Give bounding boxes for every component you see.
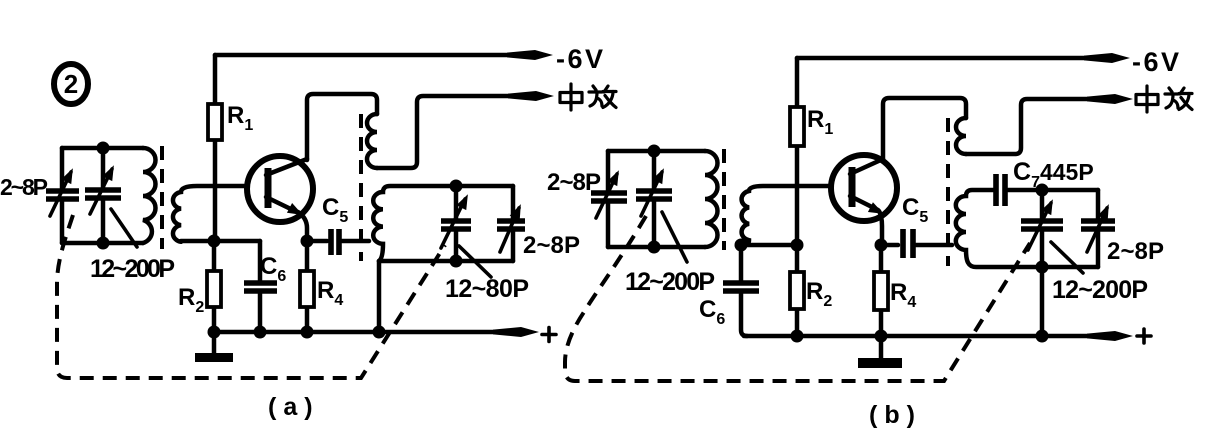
transformer T2a secondary coil and tank top wire <box>373 186 513 261</box>
wire primary bottom to IF output rail (a) <box>377 96 541 168</box>
ground symbol (b) <box>858 336 902 363</box>
node tank top (a) <box>450 180 463 193</box>
variable capacitor 12~80P (a output) <box>441 186 473 261</box>
svg-text:2: 2 <box>64 69 78 99</box>
node bias divider (b) <box>791 239 804 252</box>
resistor R2 (a) <box>178 241 221 332</box>
common plus rail (b) <box>744 329 1151 343</box>
resistor R1 (a) <box>208 55 253 241</box>
ganged tuning dashed link (a) <box>57 215 445 378</box>
leader line to 12~200P label (a) <box>111 209 137 247</box>
capacitor C6 (a) <box>244 241 286 332</box>
node bottom of input tank (a) <box>97 237 110 250</box>
node bottom of input tank (b) <box>648 241 661 254</box>
svg-text:-6V: -6V <box>1132 47 1179 77</box>
IF output arrow (a) <box>508 91 554 101</box>
capacitor C5 (b) <box>881 194 952 258</box>
node rail C6 (a) <box>254 326 267 339</box>
transformer T2b secondary coil and tank bottom wire (b) <box>956 190 1098 267</box>
transformer T1b secondary coil and base wire <box>742 186 831 245</box>
leader line to 12~80P label (a) <box>459 246 491 277</box>
transformer T2b primary coil <box>956 118 966 154</box>
variable capacitor 2~8P (a output) <box>497 186 526 261</box>
node top of input tank (a) <box>97 142 110 155</box>
collector wire up to output transformer (a) <box>307 94 377 160</box>
resistor R2 (b) <box>790 245 832 336</box>
svg-text:(a): (a) <box>268 393 320 421</box>
transformer T1b core <box>722 149 726 250</box>
node tank bottom (a) <box>450 255 463 268</box>
transformer T1a secondary coil and base wire <box>173 186 265 242</box>
collector wire up to output transformer (b) <box>883 98 966 159</box>
svg-text:12~200P: 12~200P <box>90 255 175 283</box>
wire tank to ground rail (a) <box>377 261 382 332</box>
input tank loop top wire (b) <box>608 149 705 154</box>
-6V supply rail (b) <box>797 47 1179 77</box>
svg-text:2~8P: 2~8P <box>523 232 580 259</box>
leader line to 12~200P label (b) <box>662 212 687 262</box>
node C6 top (b) <box>735 239 748 252</box>
node emitter (b) <box>875 239 888 252</box>
IF output arrow (b) <box>1087 94 1133 104</box>
node rail R2 (b) <box>791 330 804 343</box>
svg-text:2~8P: 2~8P <box>1107 238 1164 265</box>
capacitor C5 (a) <box>307 194 369 255</box>
node rail at tank (b) <box>1036 330 1049 343</box>
svg-text:(b): (b) <box>869 401 922 429</box>
variable capacitor 2~8P (b input) <box>591 151 627 247</box>
svg-text:2~8P: 2~8P <box>547 169 601 196</box>
resistor R4 (b) <box>874 245 916 336</box>
node tank bottom (b) <box>1036 261 1049 274</box>
transistor Q1a <box>247 156 313 241</box>
ganged tuning dashed link (b) <box>565 216 1030 381</box>
variable capacitor 12~200P (b output) <box>1021 190 1063 267</box>
node rail R2 (a) <box>208 326 221 339</box>
input tank loop L1a top wire <box>62 146 143 151</box>
transistor Q1b <box>831 155 897 245</box>
input tank loop bottom wire (b) <box>608 245 705 250</box>
wire secondary bottom to bias node (b) <box>741 243 797 248</box>
variable capacitor 2~8P (a input) <box>46 148 79 243</box>
transformer T2a core <box>359 114 363 261</box>
node rail at tank (a) <box>373 326 386 339</box>
resistor R4 (a) <box>300 241 343 332</box>
figure number badge (2) <box>54 64 88 104</box>
variable capacitor 12~200P (a input) <box>85 148 121 243</box>
transformer T1a primary coil <box>143 148 156 243</box>
input tank loop L1a bottom wire <box>62 241 143 246</box>
capacitor C7 (b) <box>996 158 1098 206</box>
node rail R4 (a) <box>301 326 314 339</box>
wire secondary bottom to bias node (a) <box>181 239 260 244</box>
svg-text:-6V: -6V <box>556 44 603 74</box>
leader line to 12~200P label (b output) <box>1051 242 1083 273</box>
variable capacitor 12~200P (b input) <box>636 151 672 247</box>
node tank top (b) <box>1036 184 1049 197</box>
transformer T1a core <box>160 146 164 249</box>
resistor R1 (b) <box>790 58 833 245</box>
variable capacitor 2~8P (b output) <box>1081 190 1115 267</box>
node bias divider (a) <box>208 235 221 248</box>
svg-text:12~200P: 12~200P <box>625 268 715 296</box>
common plus rail (a) <box>211 327 556 342</box>
wire tank to plus rail (b) <box>1040 267 1045 336</box>
capacitor C6 (b) <box>699 245 759 336</box>
output tank bottom wire (a) <box>379 259 513 264</box>
svg-text:12~80P: 12~80P <box>445 275 529 303</box>
label zhong-fang (b) <box>1136 86 1192 112</box>
transformer T2a primary coil <box>367 114 377 168</box>
node top of input tank (b) <box>648 145 661 158</box>
transformer T2b core <box>946 118 950 266</box>
svg-text:12~200P: 12~200P <box>1052 276 1148 304</box>
-6V supply rail (a) <box>215 44 603 74</box>
label zhong-fang (a) <box>560 84 616 110</box>
node emitter (a) <box>301 235 314 248</box>
svg-text:2~8P: 2~8P <box>0 174 48 200</box>
transformer T1b primary coil <box>705 151 718 247</box>
node rail R4 (b) <box>875 330 888 343</box>
wire primary bottom to IF output rail (b) <box>966 99 1120 154</box>
ground symbol (a) <box>195 332 233 358</box>
